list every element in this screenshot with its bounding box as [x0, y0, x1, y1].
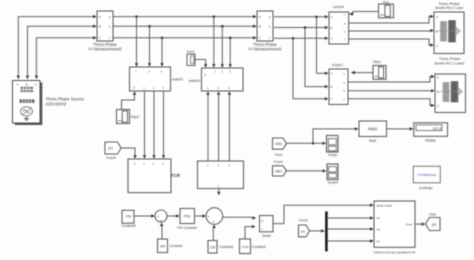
wire demux to Va [328, 217, 370, 219]
svg-text:From1: From1 [274, 160, 283, 164]
arrowhead into Divide 1 [252, 216, 256, 219]
from block Vab2 [273, 138, 287, 149]
svg-text:scope1: scope1 [332, 63, 343, 67]
label V-I measurement2 [88, 42, 122, 52]
svg-text:switch2: switch2 [172, 77, 183, 81]
arrowhead into Scope [322, 142, 326, 145]
junction dots on measurement1 outputs [315, 16, 317, 18]
svg-text:B: B [331, 85, 333, 89]
arrowheads into switch3 bottom [206, 91, 209, 95]
block PID controller [180, 209, 195, 224]
wire From Vab2 to Scope [287, 142, 323, 144]
svg-text:Constant1: Constant1 [219, 245, 234, 249]
wire scope1 out b to load2 B [348, 90, 431, 92]
svg-text:415V,50HZ: 415V,50HZ [46, 102, 67, 107]
arrowhead into Sum2 bottom [212, 224, 215, 228]
wire measurement1 out b to scope4 [274, 27, 325, 29]
arrowhead into scope4 control [349, 12, 353, 16]
arrowhead into Scope2 [323, 169, 327, 172]
wire scope1 out a to load2 A [348, 77, 431, 83]
wire bus C measurement2 to measurement1 [113, 37, 253, 39]
arrowheads into generator Va Vb Vc [370, 216, 374, 219]
svg-text:From2: From2 [299, 219, 308, 223]
wire bus B from source to measurement2 [28, 26, 94, 75]
wire Step to scope4 control [353, 12, 378, 15]
svg-text:Step1: Step1 [373, 60, 382, 64]
arrowheads into load2 [431, 75, 435, 78]
block firing pulse generator [374, 201, 415, 247]
goto block Goto [426, 218, 440, 231]
block RMS [359, 121, 387, 137]
wire Step2 to switch2 bottom input [122, 95, 135, 109]
svg-text:C: C [331, 97, 333, 101]
svg-text:PID Controller: PID Controller [177, 226, 198, 230]
demux bar [325, 211, 328, 251]
arrowhead into Goto [422, 222, 426, 225]
svg-text:delay angle: delay angle [376, 204, 392, 208]
wire From6 to TCR [121, 148, 135, 155]
svg-text:A: A [437, 75, 439, 79]
arrowhead into Divide 2 [252, 225, 256, 228]
label RLC load2 [434, 57, 464, 65]
svg-text:Divide: Divide [262, 234, 271, 238]
step block Step1 [373, 66, 386, 80]
svg-text:scope4: scope4 [333, 5, 344, 9]
arrowhead into Display [410, 127, 414, 130]
wire tap C to switch3 [229, 38, 231, 64]
svg-text:Series RLC Load: Series RLC Load [435, 6, 463, 10]
arrowheads into TCR top [143, 155, 146, 159]
svg-text:Vab2: Vab2 [275, 142, 283, 146]
svg-text:Three-Phase Source: Three-Phase Source [46, 96, 85, 101]
sum block Sum2 [206, 208, 223, 225]
scope block Scope [327, 136, 339, 153]
label three-phase source [46, 96, 85, 106]
svg-text:A: A [17, 82, 19, 86]
svg-text:2*100: 2*100 [241, 245, 249, 249]
svg-text:powergui: powergui [420, 186, 433, 190]
arrowhead block2 stub [217, 192, 220, 196]
svg-text:A: A [331, 72, 333, 76]
svg-text:Scope: Scope [328, 153, 337, 157]
arrowhead into firing generator delay [370, 204, 374, 207]
svg-text:V-I Measurement1: V-I Measurement1 [248, 47, 282, 52]
svg-text:Scope2: Scope2 [327, 181, 338, 185]
from block Vab1 [273, 166, 287, 176]
wire bus B measurement2 to measurement1 [113, 25, 253, 27]
svg-text:B: B [436, 29, 438, 33]
wire Out1 to Goto [415, 223, 422, 225]
block Constant5 [122, 210, 134, 223]
svg-text:Vb: Vb [376, 227, 380, 231]
svg-text:A: A [259, 15, 261, 19]
svg-text:x: x [261, 218, 263, 223]
block V-I measurement2 [97, 11, 113, 41]
svg-text:Vab1: Vab1 [275, 169, 283, 173]
svg-text:B: B [259, 25, 261, 29]
arrowheads into measurement2 [93, 15, 97, 18]
from block From6 [105, 142, 121, 154]
wire Step1 to scope1 control [355, 72, 373, 74]
wire Step3 to switch3 top input [195, 60, 206, 65]
svg-text:RMS: RMS [369, 139, 376, 143]
junction dot Vab2 [312, 142, 314, 144]
svg-text:135: 135 [210, 245, 216, 249]
svg-text:RMS: RMS [368, 127, 378, 132]
step block Step [379, 4, 394, 18]
wire Constant5 to Sum1 [134, 215, 151, 217]
svg-text:Step: Step [383, 0, 390, 4]
svg-text:Continuous: Continuous [417, 173, 436, 177]
svg-text:B: B [437, 90, 439, 94]
wire Constant 240 to Sum1 [161, 226, 163, 239]
wire demux to Vc [328, 240, 370, 242]
block Constant 240 [158, 239, 168, 253]
arrowhead Step2 into switch2 [133, 91, 136, 95]
svg-text:From6: From6 [106, 156, 115, 160]
wire measurement1 out a to scope4 [274, 16, 325, 18]
arrowhead into Sum1 left [151, 214, 155, 217]
arrowheads into measurement1 [253, 15, 257, 18]
wire demux to Vb [328, 228, 370, 230]
svg-text:abc: abc [301, 229, 306, 233]
label RLC load1 [435, 2, 463, 10]
block2 subsystem [198, 161, 244, 189]
wire branch a down to scope1 [317, 17, 325, 73]
wire tap A to switch3 [213, 17, 215, 65]
wire branch c down to scope1 [293, 38, 325, 99]
svg-text:[P]: [P] [432, 223, 436, 227]
svg-text:B: B [331, 26, 333, 30]
wire bus C from source to measurement2 [36, 38, 93, 76]
arrowhead Step3 into switch3 [204, 64, 207, 68]
svg-text:Constant: Constant [170, 244, 183, 248]
svg-text:[P]: [P] [108, 147, 112, 151]
arrowhead into demux [321, 229, 325, 232]
wire switch2 to TCR 1 [144, 91, 146, 155]
svg-text:2: 2 [204, 73, 206, 77]
wire block2 to switch3 3 [228, 95, 230, 160]
wire tap B to switch3 [221, 26, 223, 64]
block V-I measurement1 [257, 11, 273, 41]
svg-text:FIRING PULSE GENERATOR: FIRING PULSE GENERATOR [374, 250, 416, 254]
wire switch2 to TCR 3 [163, 91, 165, 155]
arrowhead From6 into TCR [133, 155, 136, 159]
wire scope4 out b to load1 B [349, 30, 431, 32]
block Display [414, 123, 448, 137]
block three-phase series RLC load1 [434, 12, 464, 54]
svg-text:Vc: Vc [376, 239, 380, 243]
block Divide [260, 216, 274, 232]
wire block2 to switch3 2 [218, 95, 220, 160]
svg-text:A: A [331, 15, 333, 19]
block switch3 subsystem [202, 68, 244, 91]
svg-text:A: A [99, 15, 101, 19]
svg-text:337.8: 337.8 [433, 127, 442, 131]
junction dots on bus [135, 16, 137, 18]
arrowhead into Sum2 left [202, 214, 206, 217]
wire RMS to Display [387, 128, 410, 130]
label V-I measurement1 [248, 42, 282, 52]
wire PID to Sum2 [195, 215, 203, 217]
three-phase source block [13, 81, 43, 126]
svg-text:Constant2: Constant2 [252, 245, 267, 249]
arrowhead into scope1 control [351, 71, 355, 75]
svg-text:B: B [99, 25, 101, 29]
arrowheads into source ports [17, 76, 20, 80]
wire tap B to switch2 [149, 26, 151, 63]
svg-text:Step2: Step2 [131, 115, 140, 119]
svg-text:A: A [436, 15, 438, 19]
block three-phase series RLC load2 [435, 74, 466, 113]
svg-text:C: C [331, 37, 333, 41]
svg-text:Step3: Step3 [187, 49, 195, 53]
block switch2 subsystem [130, 67, 171, 91]
arrowhead into RMS [355, 127, 359, 130]
svg-text:Series RLC Load1: Series RLC Load1 [434, 61, 464, 65]
wire scope1 out c to load2 C [348, 99, 431, 106]
arrowheads into switch2 top [135, 63, 138, 67]
svg-text:V-I Measurement2: V-I Measurement2 [88, 47, 122, 52]
svg-text:Va: Va [376, 216, 380, 220]
svg-text:Constant5: Constant5 [121, 224, 136, 228]
svg-text:Out1: Out1 [406, 223, 413, 227]
svg-text:TCR: TCR [171, 173, 181, 178]
block scope1 breaker [329, 69, 348, 105]
arrowhead into PID [176, 214, 180, 217]
block Constant2 [240, 239, 251, 254]
wire branch b down to scope1 [305, 28, 325, 87]
wire Constant1 to Sum2 [212, 228, 214, 240]
wire From2 to demux [310, 230, 322, 232]
wire From1 to Scope2 [287, 170, 323, 172]
wire branch to RMS [313, 129, 355, 143]
svg-text:Display: Display [425, 138, 436, 142]
svg-text:Goto: Goto [429, 213, 436, 217]
sum block Sum1 [155, 210, 167, 223]
wire scope4 out c to load1 C [349, 39, 431, 45]
arrowheads into scope4 left [325, 15, 329, 18]
wire tap C to switch2 [161, 38, 163, 64]
wire measurement1 out c to scope4 [274, 37, 325, 39]
svg-text:C: C [35, 82, 37, 86]
wire block2 to switch3 1 [207, 95, 209, 160]
scope block Scope2 [327, 164, 338, 180]
wire bus A from source to measurement2 [18, 17, 93, 76]
svg-text:2: 2 [133, 86, 135, 90]
svg-text:240: 240 [160, 244, 166, 248]
step block Step2 [117, 110, 130, 124]
arrowheads into load1 [430, 15, 434, 18]
block Constant1 [208, 241, 217, 254]
wire switch2 to TCR 2 [153, 91, 155, 155]
wire tap A to switch2 [136, 17, 138, 64]
step block Step3 [187, 54, 195, 66]
wire Divide to firing pulse generator [273, 205, 370, 223]
svg-text:B: B [26, 82, 28, 86]
block powergui [413, 166, 440, 183]
wire Sum2 to Divide [223, 216, 253, 218]
svg-text:PID: PID [184, 214, 191, 219]
arrowheads into scope1 left [325, 72, 329, 75]
block scope4 breaker [329, 12, 349, 44]
svg-text:switch3: switch3 [189, 79, 200, 83]
wire bus A measurement2 to measurement1 [113, 16, 253, 18]
arrowheads into switch3 top [212, 64, 215, 68]
wire block2 bottom stub [218, 189, 220, 192]
svg-text:From: From [275, 153, 283, 157]
block TCR [128, 159, 171, 193]
wire Sum1 to PID [167, 215, 176, 217]
svg-text:150: 150 [126, 215, 132, 219]
wire scope4 out a to load1 A [349, 16, 431, 23]
wire Constant2 to Divide [245, 227, 252, 239]
arrowhead into Sum1 bottom [160, 222, 163, 226]
from block From2 [299, 225, 310, 237]
